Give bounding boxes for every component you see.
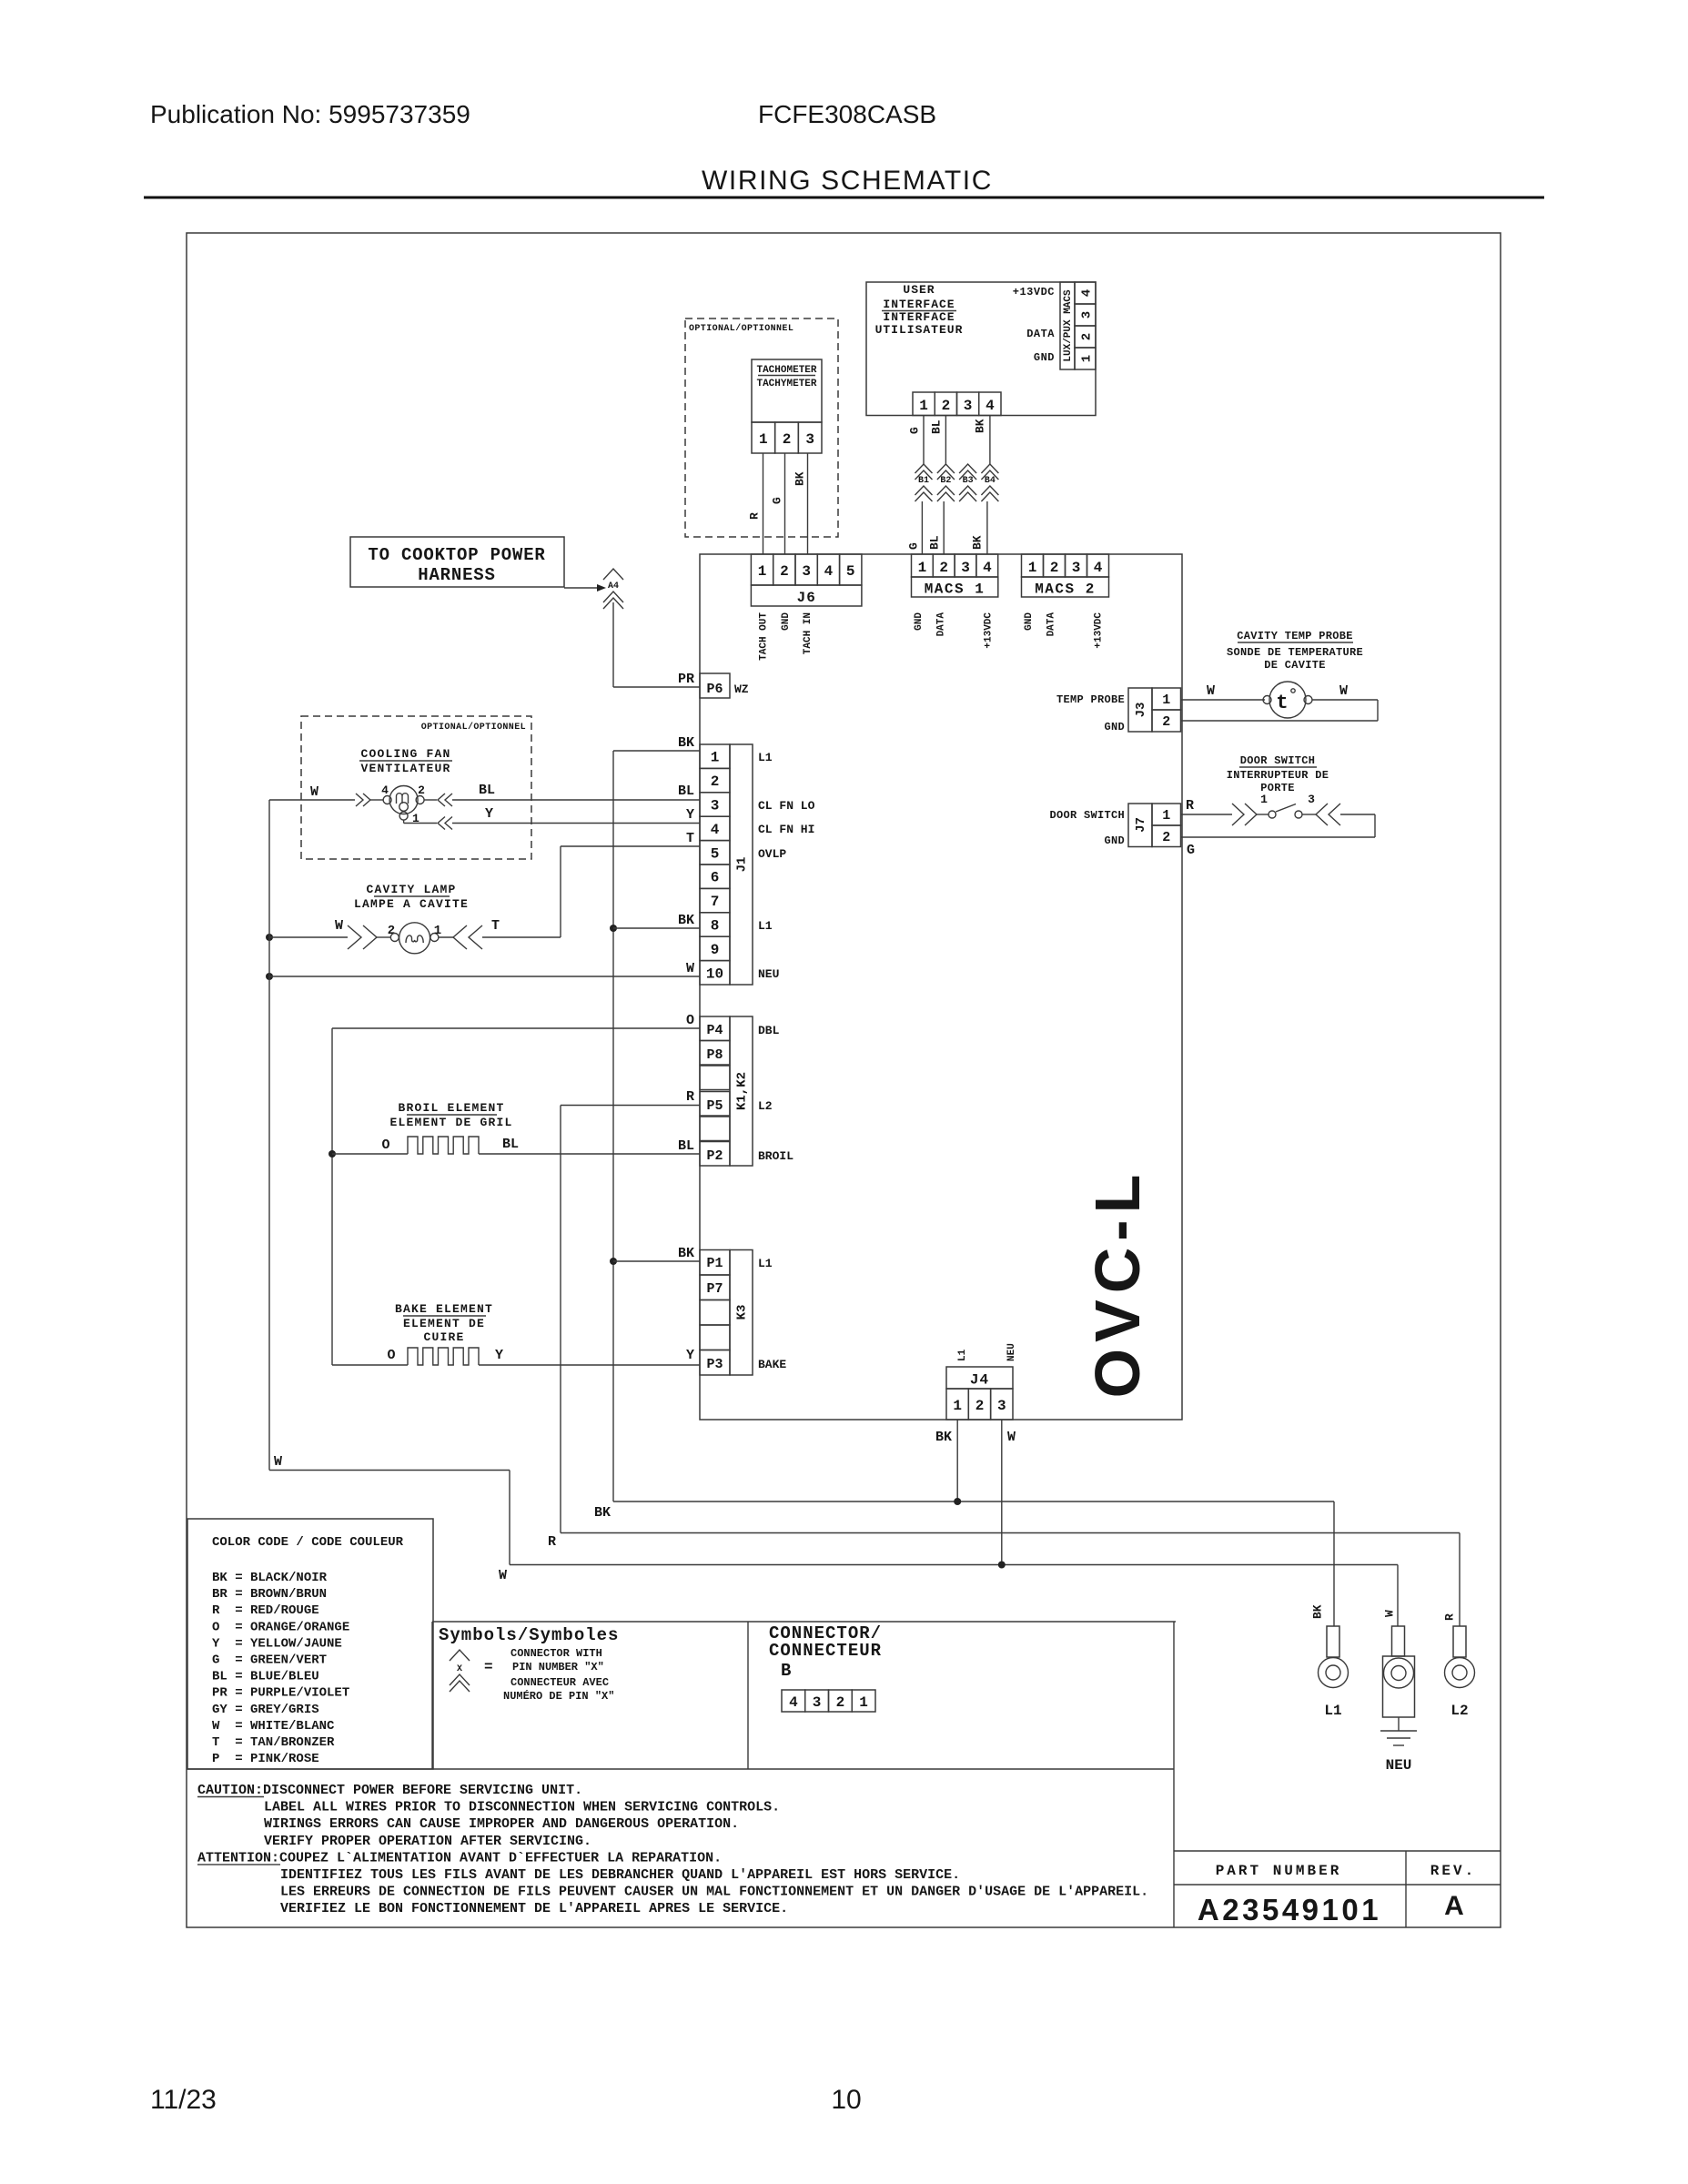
svg-text:WIRINGS ERRORS CAN CAUSE IMPRO: WIRINGS ERRORS CAN CAUSE IMPROPER AND DA… <box>264 1816 739 1832</box>
svg-text:R: R <box>748 512 762 520</box>
wire PR from A4 to P6 <box>612 602 614 687</box>
svg-text:4: 4 <box>824 563 834 580</box>
user interface bottom connector pins 1-4 <box>913 392 935 416</box>
connector J6 pins 1-5 <box>751 554 773 585</box>
svg-text:TACH IN: TACH IN <box>803 612 814 654</box>
svg-text:BAKE ELEMENT: BAKE ELEMENT <box>395 1302 493 1316</box>
junction node broil O <box>329 1150 336 1158</box>
svg-text:DOOR SWITCH: DOOR SWITCH <box>1240 754 1316 767</box>
connector B3 <box>959 464 976 473</box>
wire O to bake element <box>332 1364 408 1366</box>
wire BL from UI pin 2 to connector B2 <box>945 416 946 465</box>
svg-text:DATA: DATA <box>1026 328 1055 340</box>
svg-text:BL: BL <box>502 1137 519 1152</box>
wire W from J3 pin 1 to probe <box>1181 699 1266 701</box>
svg-text:t: t <box>1276 692 1288 714</box>
svg-text:BAKE: BAKE <box>758 1358 786 1371</box>
svg-text:1: 1 <box>1028 560 1037 576</box>
svg-text:Symbols/Symboles: Symbols/Symboles <box>439 1625 619 1645</box>
connector A4 <box>603 569 623 580</box>
svg-text:GND: GND <box>1024 612 1035 631</box>
svg-text:4: 4 <box>1080 289 1095 297</box>
svg-text:P4: P4 <box>706 1023 723 1038</box>
connector B4 <box>981 464 998 473</box>
door switch S1 <box>1269 811 1276 818</box>
svg-text:NEU: NEU <box>1006 1343 1017 1361</box>
svg-text:1: 1 <box>434 924 441 938</box>
svg-text:LUX/PUX MACS: LUX/PUX MACS <box>1063 289 1074 362</box>
wire BK vertical bus <box>612 751 614 1501</box>
outer border frame <box>187 233 1501 1927</box>
wire BK bottom run to L1 terminal <box>613 1501 1334 1502</box>
svg-text:G = GREEN/VERT: G = GREEN/VERT <box>212 1653 327 1668</box>
svg-text:Publication No: 5995737359: Publication No: 5995737359 <box>150 100 470 128</box>
svg-text:G: G <box>907 542 921 550</box>
connector P6 <box>700 673 730 698</box>
connector J1 pins 1-10 <box>700 744 730 768</box>
svg-text:GND: GND <box>1104 721 1125 733</box>
wire G tachometer pin2 to J6 pin2 <box>784 453 786 554</box>
svg-text:+13VDC: +13VDC <box>984 612 995 649</box>
svg-text:2: 2 <box>1080 333 1095 340</box>
svg-text:CL FN LO: CL FN LO <box>758 799 815 813</box>
svg-text:1: 1 <box>1260 793 1268 806</box>
svg-text:G: G <box>908 427 922 434</box>
part number box <box>1173 1622 1175 1927</box>
svg-text:3: 3 <box>711 798 720 814</box>
svg-text:2: 2 <box>975 1398 985 1414</box>
svg-text:CAVITY TEMP PROBE: CAVITY TEMP PROBE <box>1237 630 1353 642</box>
svg-text:R: R <box>548 1534 556 1550</box>
svg-text:BL = BLUE/BLEU: BL = BLUE/BLEU <box>212 1670 319 1684</box>
svg-text:USER: USER <box>903 283 935 297</box>
svg-text:BL: BL <box>678 784 694 799</box>
svg-text:FCFE308CASB: FCFE308CASB <box>758 100 936 128</box>
wire R from P5 <box>561 1105 700 1107</box>
svg-text:INTERRUPTEUR DE: INTERRUPTEUR DE <box>1227 769 1329 782</box>
svg-text:4: 4 <box>381 784 389 797</box>
svg-text:R = RED/ROUGE: R = RED/ROUGE <box>212 1603 319 1618</box>
svg-text:PR: PR <box>678 672 694 687</box>
junction node BK at P1 <box>610 1258 617 1265</box>
svg-text:ATTENTION:COUPEZ L`ALIMENTATIO: ATTENTION:COUPEZ L`ALIMENTATION AVANT D`… <box>197 1850 722 1865</box>
svg-text:1: 1 <box>1162 693 1170 708</box>
wire BK to J1 pin 8 <box>613 927 700 929</box>
svg-text:J4: J4 <box>970 1372 989 1389</box>
svg-text:CAUTION:DISCONNECT POWER BEFOR: CAUTION:DISCONNECT POWER BEFORE SERVICIN… <box>197 1783 582 1798</box>
svg-text:3: 3 <box>802 563 811 580</box>
svg-text:BK: BK <box>594 1505 611 1521</box>
svg-text:GND: GND <box>781 612 792 631</box>
svg-text:4: 4 <box>983 560 992 576</box>
svg-text:B4: B4 <box>985 476 996 486</box>
svg-text:T: T <box>686 831 694 846</box>
svg-text:HARNESS: HARNESS <box>418 565 495 585</box>
cavity temp probe RT1 <box>1269 682 1306 718</box>
svg-text:W: W <box>310 784 318 800</box>
svg-text:CONNECTEUR AVEC: CONNECTEUR AVEC <box>510 1676 609 1689</box>
svg-text:4: 4 <box>1094 560 1103 576</box>
svg-text:O = ORANGE/ORANGE: O = ORANGE/ORANGE <box>212 1620 349 1634</box>
svg-text:GND: GND <box>914 612 925 631</box>
svg-text:BL: BL <box>928 535 942 550</box>
arrow to connector A4 <box>564 587 597 589</box>
optional tachometer dashed box <box>685 318 838 537</box>
svg-text:6: 6 <box>711 870 720 886</box>
connector block K3 <box>700 1250 730 1276</box>
svg-text:BL: BL <box>678 1138 694 1154</box>
symbols legend box <box>432 1621 1176 1623</box>
svg-text:PIN NUMBER "X": PIN NUMBER "X" <box>512 1661 604 1673</box>
connector MACS 1 <box>912 554 934 577</box>
svg-text:IDENTIFIEZ TOUS LES FILS AVANT: IDENTIFIEZ TOUS LES FILS AVANT DE LES DE… <box>280 1867 960 1883</box>
to cooktop power harness box <box>350 537 564 587</box>
wire O to broil element <box>332 1153 408 1155</box>
svg-text:COLOR CODE / CODE COULEUR: COLOR CODE / CODE COULEUR <box>212 1535 404 1550</box>
color code legend box <box>187 1519 433 1769</box>
svg-text:NEU: NEU <box>758 967 779 981</box>
svg-text:R: R <box>686 1089 694 1105</box>
wire W to J1 pin 10 <box>269 976 700 977</box>
svg-text:WIRING SCHEMATIC: WIRING SCHEMATIC <box>702 166 993 196</box>
svg-text:GND: GND <box>1104 834 1125 847</box>
wire W from J4 pin 3 <box>1001 1420 1003 1565</box>
svg-text:CAVITY LAMP: CAVITY LAMP <box>366 883 456 896</box>
svg-text:9: 9 <box>711 942 720 958</box>
ground symbol <box>1398 1717 1400 1731</box>
connector J1 label box <box>730 744 753 985</box>
broil element heater <box>408 1137 479 1154</box>
svg-text:A: A <box>1444 1891 1464 1921</box>
svg-text:CL FN HI: CL FN HI <box>758 823 814 836</box>
svg-text:J6: J6 <box>797 590 816 606</box>
svg-text:10: 10 <box>831 2085 861 2115</box>
caution area top line <box>187 1768 1174 1770</box>
junction node BK at J4 pin 1 <box>954 1498 961 1505</box>
svg-text:T: T <box>491 918 500 934</box>
svg-text:W: W <box>1007 1430 1016 1445</box>
svg-text:10: 10 <box>706 966 723 982</box>
connector B1 <box>915 464 933 473</box>
svg-text:Y = YELLOW/JAUNE: Y = YELLOW/JAUNE <box>212 1636 342 1651</box>
svg-text:W: W <box>335 918 343 934</box>
svg-text:=: = <box>484 1659 493 1675</box>
svg-text:BK: BK <box>678 1246 694 1261</box>
svg-text:BK: BK <box>678 913 694 928</box>
svg-text:NUMÉRO DE PIN "X": NUMÉRO DE PIN "X" <box>503 1689 614 1703</box>
svg-text:P2: P2 <box>706 1148 723 1164</box>
svg-text:BK: BK <box>1311 1604 1325 1619</box>
svg-text:TACHYMETER: TACHYMETER <box>756 379 816 389</box>
svg-text:BK: BK <box>793 471 807 486</box>
svg-text:1: 1 <box>758 563 767 580</box>
wire Y from bake element to P3 <box>479 1364 700 1366</box>
svg-text:L1: L1 <box>957 1349 968 1361</box>
wire BL from broil element to P2 <box>479 1153 700 1155</box>
svg-text:3: 3 <box>1072 560 1081 576</box>
svg-text:P3: P3 <box>706 1357 723 1372</box>
svg-text:BK: BK <box>971 535 985 550</box>
svg-text:COOLING FAN: COOLING FAN <box>360 747 450 761</box>
svg-text:R: R <box>1186 798 1194 814</box>
svg-text:LABEL ALL WIRES PRIOR TO DISCO: LABEL ALL WIRES PRIOR TO DISCONNECTION W… <box>264 1800 780 1815</box>
svg-text:ELEMENT DE: ELEMENT DE <box>403 1317 485 1330</box>
svg-text:R: R <box>1443 1613 1457 1621</box>
bake element heater <box>408 1348 479 1365</box>
svg-text:VERIFIEZ LE BON FONCTIONNEMENT: VERIFIEZ LE BON FONCTIONNEMENT DE L'APPA… <box>280 1901 788 1916</box>
optional cooling fan dashed box <box>301 716 531 859</box>
wire G from B1 to MACS1 pin 1 <box>921 501 923 554</box>
svg-text:3: 3 <box>805 431 814 448</box>
svg-text:B1: B1 <box>918 476 929 486</box>
svg-text:BK: BK <box>678 735 694 751</box>
svg-text:OVC-L: OVC-L <box>1082 1168 1153 1399</box>
svg-text:VENTILATEUR: VENTILATEUR <box>360 762 450 775</box>
cooling fan motor M1 <box>389 786 418 814</box>
svg-text:3: 3 <box>961 560 970 576</box>
svg-text:BROIL ELEMENT: BROIL ELEMENT <box>398 1101 504 1115</box>
svg-text:TACHOMETER: TACHOMETER <box>756 365 816 376</box>
svg-text:O: O <box>387 1348 395 1363</box>
svg-text:DOOR SWITCH: DOOR SWITCH <box>1049 809 1125 822</box>
junction node cavity lamp W <box>266 934 273 941</box>
svg-text:BR = BROWN/BRUN: BR = BROWN/BRUN <box>212 1587 327 1602</box>
svg-text:Y: Y <box>686 1348 694 1363</box>
svg-text:O: O <box>686 1013 694 1028</box>
svg-text:7: 7 <box>711 894 720 910</box>
wire BK from J4 pin 1 <box>956 1420 958 1501</box>
wire G from UI pin 1 to connector B1 <box>923 416 925 465</box>
svg-text:P7: P7 <box>706 1281 723 1297</box>
svg-text:2: 2 <box>783 431 792 448</box>
svg-text:L1: L1 <box>1324 1703 1341 1719</box>
svg-text:G: G <box>1187 843 1195 858</box>
oven control board OVC-L outline <box>700 554 1182 1420</box>
svg-text:P8: P8 <box>706 1047 723 1063</box>
svg-text:CONNECTEUR: CONNECTEUR <box>769 1641 882 1661</box>
svg-text:B2: B2 <box>940 476 951 486</box>
svg-text:DATA: DATA <box>1046 612 1057 637</box>
wire Y from fan pin 1 to J1 pin 4 <box>403 820 405 824</box>
svg-text:1: 1 <box>918 560 927 576</box>
svg-text:B3: B3 <box>963 476 974 486</box>
svg-text:W: W <box>274 1454 282 1470</box>
svg-text:W: W <box>499 1568 507 1583</box>
wire BK to J1 pin 1 <box>613 750 700 752</box>
svg-text:BL: BL <box>479 783 495 798</box>
svg-text:3: 3 <box>1080 311 1095 318</box>
connector J6 label box <box>751 585 862 606</box>
svg-text:P1: P1 <box>706 1256 723 1271</box>
svg-text:OPTIONAL/OPTIONNEL: OPTIONAL/OPTIONNEL <box>689 323 793 334</box>
svg-text:TO COOKTOP POWER: TO COOKTOP POWER <box>368 545 545 565</box>
svg-text:1: 1 <box>859 1694 868 1711</box>
connector LUX/PUX MACS on user interface <box>1060 282 1075 369</box>
svg-text:DE CAVITE: DE CAVITE <box>1264 659 1326 672</box>
wire BK from B4 to MACS1 pin 4 <box>986 501 988 554</box>
svg-text:2: 2 <box>780 563 789 580</box>
wire O from P4 <box>332 1027 700 1029</box>
wire BL from B2 to MACS1 pin 2 <box>943 501 945 554</box>
svg-text:Y: Y <box>495 1348 503 1363</box>
svg-text:CUIRE: CUIRE <box>423 1330 464 1344</box>
svg-text:TACH OUT: TACH OUT <box>759 612 770 661</box>
wire R tachometer pin1 to J6 pin1 <box>763 453 764 554</box>
svg-text:BROIL: BROIL <box>758 1149 793 1163</box>
connector B2 <box>937 464 955 473</box>
svg-text:A23549101: A23549101 <box>1198 1893 1381 1926</box>
svg-text:3: 3 <box>813 1694 822 1711</box>
svg-text:GY = GREY/GRIS: GY = GREY/GRIS <box>212 1703 319 1717</box>
svg-text:NEU: NEU <box>1386 1757 1412 1774</box>
user interface module box <box>866 282 1096 416</box>
svg-text:UTILISATEUR: UTILISATEUR <box>875 323 964 337</box>
svg-text:G: G <box>771 497 784 504</box>
svg-text:1: 1 <box>1162 808 1170 824</box>
svg-text:J7: J7 <box>1134 817 1148 833</box>
wire W to cavity lamp <box>269 936 348 938</box>
connector B pins 4-1 <box>782 1690 805 1712</box>
svg-text:2: 2 <box>418 784 425 797</box>
svg-text:MACS 2: MACS 2 <box>1035 581 1096 598</box>
wire R bottom run to L2 terminal <box>561 1532 1460 1534</box>
svg-text:VERIFY PROPER OPERATION AFTER: VERIFY PROPER OPERATION AFTER SERVICING. <box>264 1834 591 1849</box>
svg-text:K3: K3 <box>735 1305 750 1320</box>
svg-text:P = PINK/ROSE: P = PINK/ROSE <box>212 1752 319 1766</box>
svg-text:BK: BK <box>974 419 987 433</box>
svg-text:4: 4 <box>986 398 995 414</box>
svg-text:2: 2 <box>1050 560 1059 576</box>
wire BK from UI pin 4 to connector B4 <box>989 416 991 465</box>
svg-text:O: O <box>381 1137 389 1153</box>
svg-text:2: 2 <box>942 398 951 414</box>
svg-text:LES ERREURS DE CONNECTION DE F: LES ERREURS DE CONNECTION DE FILS PEUVEN… <box>280 1885 1148 1900</box>
svg-text:W: W <box>1383 1610 1397 1617</box>
svg-text:W: W <box>686 961 694 976</box>
svg-text:L2: L2 <box>1450 1703 1468 1719</box>
svg-text:5: 5 <box>711 845 720 862</box>
svg-text:1: 1 <box>953 1398 962 1414</box>
svg-text:2: 2 <box>939 560 948 576</box>
wire BL from fan pin 2 to J1 pin 3 <box>424 799 437 801</box>
svg-text:L1: L1 <box>758 919 773 933</box>
svg-text:P5: P5 <box>706 1098 723 1114</box>
svg-text:K1,K2: K1,K2 <box>735 1072 750 1110</box>
svg-text:T = TAN/BRONZER: T = TAN/BRONZER <box>212 1735 335 1750</box>
svg-text:X: X <box>457 1664 462 1674</box>
svg-text:A4: A4 <box>608 581 619 591</box>
svg-text:3: 3 <box>997 1398 1006 1414</box>
svg-text:J1: J1 <box>735 857 750 873</box>
svg-text:TEMP PROBE: TEMP PROBE <box>1056 693 1125 706</box>
svg-text:DATA: DATA <box>936 612 947 637</box>
connector-with-pin symbol <box>450 1650 470 1661</box>
junction node W at J1 pin 10 <box>266 973 273 980</box>
svg-text:L1: L1 <box>758 1257 773 1270</box>
svg-text:OVLP: OVLP <box>758 847 786 861</box>
svg-text:B: B <box>781 1661 792 1681</box>
wire W from probe to J3 pin 2 <box>1312 699 1378 701</box>
svg-text:REV.: REV. <box>1430 1863 1476 1879</box>
svg-text:1: 1 <box>711 750 720 766</box>
wire W bottom run to NEU terminal <box>269 1470 510 1471</box>
wire BK to P1 <box>613 1260 700 1262</box>
svg-text:L1: L1 <box>758 751 773 764</box>
svg-text:3: 3 <box>1308 793 1315 806</box>
svg-text:3: 3 <box>964 398 973 414</box>
tachometer box <box>752 359 822 422</box>
svg-text:W: W <box>1339 683 1348 699</box>
svg-text:PART NUMBER: PART NUMBER <box>1216 1863 1342 1879</box>
svg-text:Y: Y <box>686 807 694 823</box>
svg-text:1: 1 <box>759 431 768 448</box>
svg-text:BK: BK <box>935 1430 952 1445</box>
svg-text:GND: GND <box>1034 351 1055 364</box>
svg-text:W: W <box>1207 683 1215 699</box>
svg-text:11/23: 11/23 <box>150 2085 217 2115</box>
svg-text:P6: P6 <box>706 682 723 697</box>
svg-text:2: 2 <box>1162 830 1170 845</box>
svg-text:8: 8 <box>711 918 720 935</box>
svg-text:CONNECTOR WITH: CONNECTOR WITH <box>510 1647 602 1660</box>
tachometer pins 1-3 <box>752 422 775 453</box>
svg-text:INTERFACE: INTERFACE <box>883 310 955 324</box>
svg-text:BK = BLACK/NOIR: BK = BLACK/NOIR <box>212 1571 328 1585</box>
wire BK tachometer pin3 to J6 pin3 <box>807 453 809 554</box>
svg-text:+13VDC: +13VDC <box>1094 612 1105 649</box>
svg-text:Y: Y <box>485 806 493 822</box>
svg-text:SONDE DE TEMPERATURE: SONDE DE TEMPERATURE <box>1227 646 1363 659</box>
svg-text:INTERFACE: INTERFACE <box>883 298 955 311</box>
wire T from cavity lamp to J1 pin 5 <box>439 936 453 938</box>
svg-text:5: 5 <box>846 563 855 580</box>
svg-text:ELEMENT DE GRIL: ELEMENT DE GRIL <box>389 1116 512 1129</box>
svg-text:1: 1 <box>919 398 928 414</box>
svg-text:WZ: WZ <box>734 682 749 696</box>
connector MACS 2 <box>1022 554 1044 577</box>
svg-text:+13VDC: +13VDC <box>1013 286 1055 298</box>
wire from door switch to J7 pin 2 <box>1302 814 1316 815</box>
svg-text:OPTIONAL/OPTIONNEL: OPTIONAL/OPTIONNEL <box>421 722 526 733</box>
svg-text:DBL: DBL <box>758 1024 780 1037</box>
svg-text:4: 4 <box>711 822 720 838</box>
svg-text:L2: L2 <box>758 1099 773 1113</box>
svg-text:BL: BL <box>930 420 944 434</box>
svg-text:2: 2 <box>711 773 720 790</box>
junction node BK at J1 pin 8 <box>610 925 617 932</box>
junction node W at J4 pin 3 <box>998 1562 1006 1569</box>
svg-text:2: 2 <box>836 1694 845 1711</box>
connector block K1,K2 <box>700 1016 730 1041</box>
svg-text:LAMPE A CAVITE: LAMPE A CAVITE <box>354 897 469 911</box>
svg-text:4: 4 <box>789 1694 798 1711</box>
svg-text:1: 1 <box>1080 355 1095 362</box>
wire W vertical left bus <box>268 800 270 1471</box>
svg-text:2: 2 <box>1162 714 1170 730</box>
title rule <box>144 197 1544 199</box>
svg-text:W = WHITE/BLANC: W = WHITE/BLANC <box>212 1719 335 1734</box>
svg-text:MACS 1: MACS 1 <box>925 581 986 598</box>
svg-text:PR = PURPLE/VIOLET: PR = PURPLE/VIOLET <box>212 1686 349 1701</box>
svg-text:J3: J3 <box>1134 703 1148 718</box>
